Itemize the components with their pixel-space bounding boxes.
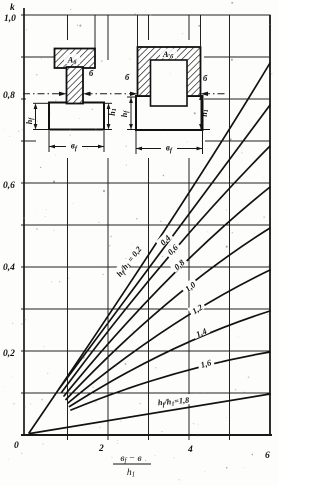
curve label hf/h1=1,8 [149,393,198,409]
axis labels [3,3,270,461]
y axis [23,8,25,436]
svg-text:6: 6 [265,451,270,461]
line hf/h1=0.2 [29,63,270,433]
grid stubs redrawn over masks [21,15,270,141]
svg-text:2: 2 [98,444,104,454]
svg-text:вf − в: вf − в [120,454,141,465]
curve label 1,4 [192,324,211,340]
curve label 1,0 [181,277,200,295]
label A'b in ring [160,49,177,59]
curve label 1,2 [188,300,207,317]
svg-text:k: k [10,3,15,13]
left h dimension of diagram 2 [127,97,136,130]
bf dimension under diagram 2 [136,131,203,154]
svg-text:h1: h1 [127,468,135,479]
web (hatched) of diagram 1 [67,67,84,104]
curve label 0,4 [156,231,175,250]
curve label 1,6 [197,356,215,371]
line 1.4 [70,311,271,407]
bottom block of diagram 2 [136,96,203,130]
line 1.0 [66,228,270,400]
line 0.6 [62,146,271,393]
svg-text:1,0: 1,0 [4,14,16,24]
svg-text:0,2: 0,2 [3,349,15,359]
right h dimension of diagram 2 [201,95,210,130]
dash-dot centre line [23,93,226,95]
inner hole of diagram 2 [151,60,188,106]
right border [269,15,271,436]
svg-text:0,4: 0,4 [3,263,15,273]
line 1.6 [71,352,270,410]
right h dimension of diagram 1 [104,103,112,129]
arrowheads on dash line at web of diagram 1 [59,92,208,96]
left h dimension of diagram 1 [33,103,49,129]
white mask behind diagrams [26,40,210,158]
grid horizontal lines [21,15,271,393]
x axis [21,434,272,436]
label Ab in flange [64,54,80,64]
x axis title (fraction) [113,454,151,479]
svg-text:0: 0 [14,441,19,451]
fan lines [29,63,270,434]
line 1.2 [68,270,270,403]
svg-text:0,6: 0,6 [3,181,15,191]
svg-text:0,8: 0,8 [3,91,15,101]
curve label 0,8 [170,255,189,274]
hatched ring (outer) of diagram 2 [138,47,201,96]
curve label 0,6 [163,240,182,259]
bottom block of diagram 1 [49,103,104,130]
line 0.8 [64,187,270,396]
line 0.4 [59,105,270,389]
bf dimension under diagram 1 [49,131,104,152]
white mask under diagrams (dimension zone) [44,128,212,157]
grid vertical lines [68,15,230,440]
flange (hatched) of diagram 1 [55,49,96,69]
svg-text:4: 4 [187,445,193,455]
curve label hf/h1=0,2 [110,239,148,283]
line hf/h1=1.8 [30,394,270,434]
